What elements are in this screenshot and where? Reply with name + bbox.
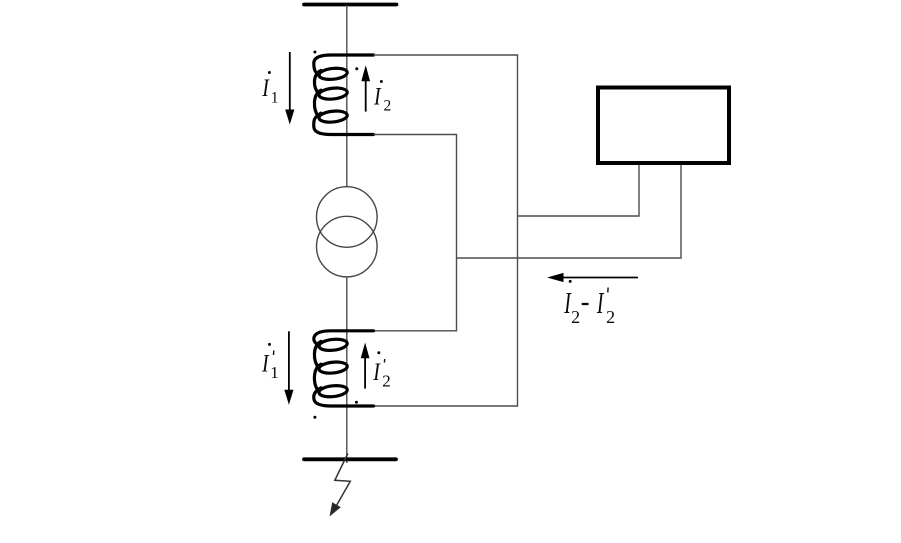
svg-text:I: I bbox=[261, 349, 270, 377]
svg-text:I: I bbox=[261, 74, 270, 102]
wire: CT1 top terminal to right vertical run down to CT2 bottom terminal bbox=[374, 55, 518, 406]
svg-text:2: 2 bbox=[606, 307, 615, 327]
transformer T winding 2 bbox=[317, 216, 378, 277]
arrow I1' down bbox=[284, 331, 293, 405]
svg-text:1: 1 bbox=[270, 363, 279, 382]
svg-text:2: 2 bbox=[382, 372, 391, 391]
svg-text:I: I bbox=[596, 286, 604, 321]
polarity dot CT1 right bbox=[355, 67, 358, 70]
polarity dot CT2 bottom-right bbox=[355, 401, 358, 404]
wire: outer vertical junction to relay left lead bbox=[518, 165, 640, 216]
transformer T winding 1 bbox=[317, 187, 378, 248]
wire: inner junction to relay right lead bbox=[457, 165, 682, 258]
svg-text:2: 2 bbox=[571, 307, 580, 327]
svg-text:I: I bbox=[372, 358, 381, 386]
polarity dot CT1 top-left bbox=[313, 51, 316, 54]
fault lightning arrow bbox=[330, 454, 351, 517]
wire: main vertical lower bbox=[346, 277, 348, 463]
differential current arrow (left) bbox=[547, 273, 638, 282]
relay KA box bbox=[598, 88, 729, 164]
label I2' bbox=[372, 351, 390, 390]
polarity dot CT2 bottom-left bbox=[313, 416, 316, 419]
label I1' bbox=[261, 343, 279, 382]
wire: main vertical upper bbox=[346, 5, 348, 187]
label I1 bbox=[261, 71, 278, 106]
arrow I2 up bbox=[361, 65, 370, 111]
CT1 coil (top current transformer secondary) bbox=[314, 55, 374, 135]
label I2 bbox=[373, 80, 391, 115]
arrow I1 down bbox=[285, 52, 294, 125]
svg-text:2: 2 bbox=[384, 98, 392, 115]
wire: CT1 bottom terminal to inner vertical run down to CT2 top terminal bbox=[374, 135, 457, 331]
arrow I2' up bbox=[361, 343, 370, 389]
svg-text:I: I bbox=[373, 83, 382, 111]
svg-text:1: 1 bbox=[271, 89, 279, 106]
CT2 coil (bottom current transformer secondary) bbox=[314, 331, 374, 406]
busbar top bbox=[304, 3, 397, 7]
label I2 - I2' bbox=[563, 280, 615, 327]
busbar bottom bbox=[304, 457, 396, 461]
